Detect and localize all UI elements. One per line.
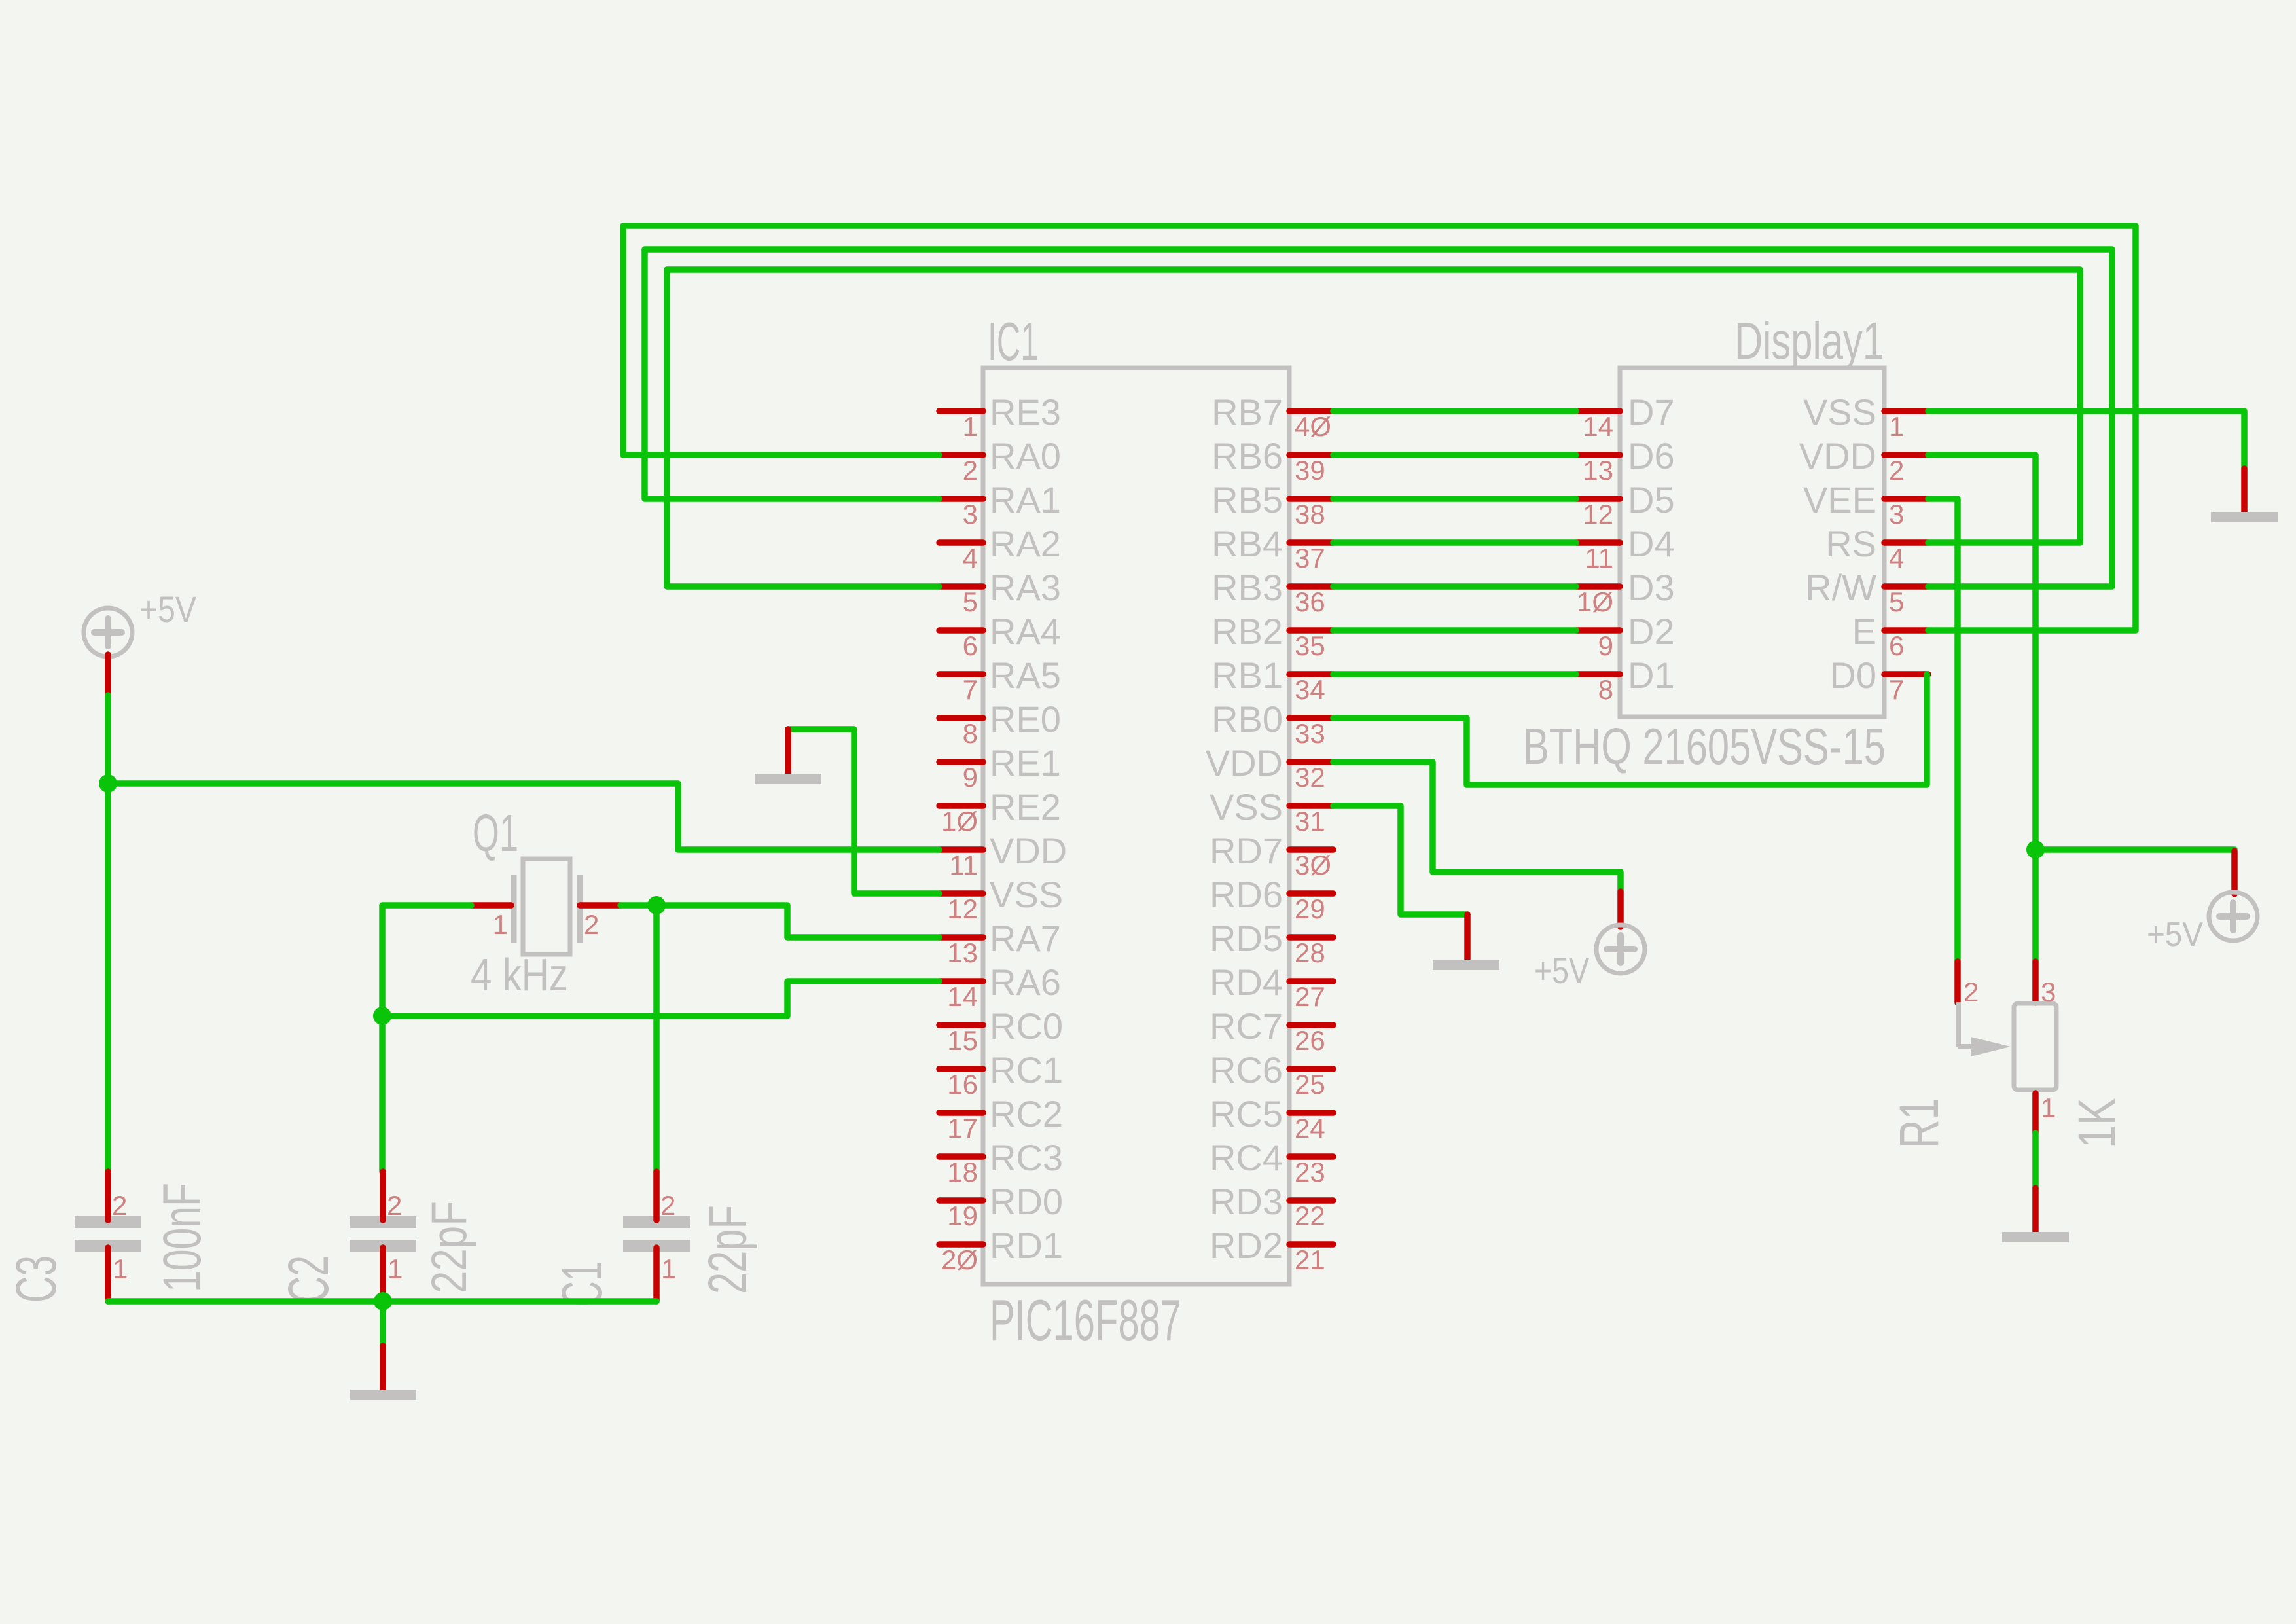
svg-text:D0: D0 (1829, 655, 1876, 696)
IC1 pin 11 VDD stub (939, 846, 983, 853)
svg-text:RC7: RC7 (1210, 1005, 1283, 1047)
svg-text:D7: D7 (1628, 391, 1675, 433)
LCD module Display1 body (1620, 368, 1884, 717)
wire Display VSS to ground (1928, 411, 2244, 469)
svg-text:RC4: RC4 (1210, 1137, 1283, 1178)
svg-text:15: 15 (947, 1025, 978, 1056)
svg-text:RD1: RD1 (990, 1225, 1063, 1266)
svg-text:34: 34 (1295, 674, 1325, 705)
svg-text:+5V: +5V (139, 588, 197, 630)
svg-text:1: 1 (661, 1254, 676, 1284)
Display1 pin 1Ø D3 stub (1576, 583, 1620, 590)
wire Display VEE down to R1 wiper (1928, 499, 1958, 962)
svg-text:14: 14 (1583, 411, 1613, 442)
svg-text:32: 32 (1295, 762, 1325, 793)
svg-text:RB5: RB5 (1211, 479, 1283, 520)
+5V supply symbol (right) (2209, 892, 2257, 941)
wire net RA1 to R/W (top line 2) (645, 249, 2112, 586)
Display1 pin 12 D5 stub (1576, 496, 1620, 502)
svg-text:+5V: +5V (2147, 916, 2203, 954)
C1 pin 2 stub (653, 1172, 660, 1220)
svg-text:3: 3 (963, 499, 978, 530)
IC1 pin 21 RD2 stub (1289, 1241, 1333, 1248)
junction capacitor bus / ground (374, 1292, 392, 1310)
Display1 pin 9 D2 stub (1576, 627, 1620, 634)
svg-text:6: 6 (1889, 630, 1904, 661)
svg-text:RA0: RA0 (990, 435, 1061, 477)
svg-text:25: 25 (1295, 1069, 1325, 1100)
Display1 pin 5 R/W stub (1884, 583, 1928, 590)
Display1 pin 7 D0 stub (1884, 671, 1928, 677)
IC1 pin 1 RE3 stub (939, 408, 983, 414)
IC1 pin 17 RC2 stub (939, 1110, 983, 1116)
ground pin stub (R1) (2032, 1188, 2039, 1233)
IC1 pin 8 RE0 stub (939, 715, 983, 721)
svg-text:RE0: RE0 (990, 698, 1061, 740)
svg-text:RE1: RE1 (990, 742, 1061, 784)
IC1 pin 4 RA2 stub (939, 539, 983, 546)
ground pin stub (IC VSS31) (1464, 914, 1471, 961)
svg-text:IC1: IC1 (988, 311, 1039, 372)
svg-text:1K: 1K (2068, 1098, 2127, 1148)
IC1 pin 10 RE2 stub (939, 803, 983, 809)
wire junction to IC RA7 (656, 905, 939, 937)
IC1 pin 29 RD6 stub (1289, 890, 1333, 897)
Display1 pin 13 D6 stub (1576, 452, 1620, 458)
svg-text:VSS: VSS (1803, 391, 1876, 433)
IC1 pin 7 RA5 stub (939, 671, 983, 677)
Display1 pin 1 VSS stub (1884, 408, 1928, 414)
svg-text:1: 1 (493, 909, 508, 940)
svg-text:RD4: RD4 (1210, 962, 1283, 1003)
IC1 pin 9 RE1 stub (939, 759, 983, 765)
svg-text:13: 13 (1583, 455, 1613, 486)
svg-text:11: 11 (1585, 543, 1613, 573)
svg-text:2: 2 (660, 1190, 675, 1221)
svg-text:RA5: RA5 (990, 655, 1061, 696)
svg-text:C2: C2 (277, 1255, 340, 1303)
svg-text:Display1: Display1 (1734, 312, 1884, 370)
IC1 pin 15 RC0 stub (939, 1022, 983, 1028)
svg-text:3Ø: 3Ø (1295, 850, 1331, 880)
wire RB1 to D1 (1333, 671, 1576, 677)
IC1 pin 2 RA0 stub (939, 452, 983, 458)
svg-text:RD6: RD6 (1210, 874, 1283, 915)
svg-text:38: 38 (1295, 499, 1325, 530)
svg-text:RA4: RA4 (990, 611, 1061, 652)
ground symbol (IC VSS12) (755, 774, 821, 784)
svg-text:C3: C3 (5, 1255, 68, 1303)
svg-text:2: 2 (1889, 455, 1904, 486)
svg-text:RB0: RB0 (1211, 698, 1283, 740)
svg-text:5: 5 (963, 586, 978, 617)
svg-text:RB1: RB1 (1211, 655, 1283, 696)
svg-text:14: 14 (947, 981, 978, 1012)
svg-text:RA6: RA6 (990, 962, 1061, 1003)
svg-text:2Ø: 2Ø (941, 1244, 978, 1275)
junction VDD net at R1 branch (2026, 840, 2045, 859)
IC1 pin 12 VSS stub (939, 890, 983, 897)
Display1 pin 2 VDD stub (1884, 452, 1928, 458)
svg-text:4 kHz: 4 kHz (471, 949, 568, 1000)
svg-text:RC3: RC3 (990, 1137, 1063, 1178)
+5V pin stub (right) (2231, 851, 2238, 894)
IC1 pin 6 RA4 stub (939, 627, 983, 634)
svg-text:28: 28 (1295, 937, 1325, 968)
svg-text:12: 12 (1583, 499, 1613, 530)
svg-text:RB6: RB6 (1211, 435, 1283, 477)
svg-text:2: 2 (387, 1190, 402, 1221)
C1 pin 1 stub (653, 1248, 660, 1301)
svg-text:VDD: VDD (1206, 742, 1283, 784)
svg-text:37: 37 (1295, 543, 1325, 573)
R1 pin 3 stub (2032, 962, 2039, 1003)
svg-text:VDD: VDD (990, 830, 1067, 871)
svg-text:22pF: 22pF (422, 1201, 477, 1293)
svg-text:RA1: RA1 (990, 479, 1061, 520)
svg-text:RA2: RA2 (990, 523, 1061, 564)
svg-text:D2: D2 (1628, 611, 1675, 652)
svg-text:2: 2 (112, 1190, 127, 1221)
IC U1 PIC16F887 body (983, 368, 1289, 1284)
svg-text:BTHQ 21605VSS-15: BTHQ 21605VSS-15 (1523, 717, 1886, 775)
svg-text:9: 9 (1598, 630, 1613, 661)
ground symbol (C2) (350, 1390, 416, 1400)
IC1 pin 13 RA7 stub (939, 934, 983, 941)
C2 pin 1 stub (380, 1248, 386, 1301)
wire IC VDD pin32 to +5V (middle) (1333, 762, 1621, 892)
wire RB4 to D4 (1333, 539, 1576, 546)
wire RB5 to D5 (1333, 496, 1576, 502)
IC1 pin 16 RC1 stub (939, 1066, 983, 1072)
svg-text:RC0: RC0 (990, 1005, 1063, 1047)
svg-text:11: 11 (949, 850, 978, 880)
svg-text:RC6: RC6 (1210, 1049, 1283, 1091)
wire RB0 to Display D0 (1333, 674, 1927, 785)
svg-text:4Ø: 4Ø (1295, 411, 1331, 442)
wire R1 pin1 to ground (2032, 1133, 2039, 1188)
wire IC RA6 to crystal net (382, 981, 939, 1016)
svg-text:24: 24 (1295, 1113, 1325, 1144)
svg-text:19: 19 (947, 1200, 978, 1231)
wire capacitor bottom bus (108, 1298, 656, 1305)
svg-text:16: 16 (947, 1069, 978, 1100)
IC1 pin 39 RB6 stub (1289, 452, 1333, 458)
svg-text:D5: D5 (1628, 479, 1675, 520)
svg-text:RB2: RB2 (1211, 611, 1283, 652)
potentiometer R1 body (2014, 1003, 2056, 1090)
ground pin stub (IC VSS12) (785, 729, 791, 775)
wire net RA0 to E (top line 1) (623, 226, 2136, 630)
svg-text:4: 4 (1889, 543, 1904, 573)
IC1 pin 32 VDD stub (1289, 759, 1333, 765)
svg-text:3: 3 (2041, 977, 2056, 1007)
wire Q1 pin2 to junction (620, 902, 656, 909)
ground pin stub (C2) (380, 1346, 386, 1391)
IC1 pin 35 RB2 stub (1289, 627, 1333, 634)
R1 pin 2 wiper stub (1954, 962, 1961, 1003)
capacitor C3 plates (75, 1216, 141, 1228)
svg-text:26: 26 (1295, 1025, 1325, 1056)
svg-text:1: 1 (1889, 411, 1904, 442)
+5V supply symbol (middle) (1596, 925, 1645, 973)
IC1 pin 18 RC3 stub (939, 1153, 983, 1160)
svg-text:RD7: RD7 (1210, 830, 1283, 871)
IC1 pin 23 RC4 stub (1289, 1153, 1333, 1160)
svg-text:RA3: RA3 (990, 567, 1061, 608)
svg-text:RC5: RC5 (1210, 1093, 1283, 1134)
capacitor C2 plates (350, 1216, 416, 1228)
svg-text:22pF: 22pF (697, 1205, 758, 1294)
svg-text:RD2: RD2 (1210, 1225, 1283, 1266)
svg-text:RB4: RB4 (1211, 523, 1283, 564)
Display1 pin 3 VEE stub (1884, 496, 1928, 502)
IC1 pin 30 RD7 stub (1289, 846, 1333, 853)
Display1 pin 4 RS stub (1884, 539, 1928, 546)
svg-text:1Ø: 1Ø (1577, 586, 1613, 617)
svg-text:13: 13 (947, 937, 978, 968)
IC1 pin 37 RB4 stub (1289, 539, 1333, 546)
svg-text:31: 31 (1295, 806, 1325, 837)
svg-text:+5V: +5V (1534, 950, 1590, 991)
IC1 pin 3 RA1 stub (939, 496, 983, 502)
svg-text:1: 1 (963, 411, 978, 442)
svg-text:1: 1 (2041, 1092, 2056, 1123)
svg-text:7: 7 (963, 674, 978, 705)
svg-text:E: E (1852, 611, 1876, 652)
ground pin stub (display VSS) (2241, 469, 2248, 513)
wire +5V to IC VDD pin11 (108, 784, 939, 850)
svg-text:22: 22 (1295, 1200, 1325, 1231)
svg-text:2: 2 (584, 909, 599, 940)
svg-text:RS: RS (1825, 523, 1876, 564)
IC1 pin 5 RA3 stub (939, 583, 983, 590)
svg-text:D3: D3 (1628, 567, 1675, 608)
IC1 pin 40 RB7 stub (1289, 408, 1333, 414)
svg-text:1Ø: 1Ø (941, 806, 978, 837)
IC1 pin 31 VSS stub (1289, 803, 1333, 809)
IC1 pin 20 RD1 stub (939, 1241, 983, 1248)
IC1 pin 25 RC6 stub (1289, 1066, 1333, 1072)
svg-text:RC2: RC2 (990, 1093, 1063, 1134)
svg-text:9: 9 (963, 762, 978, 793)
IC1 pin 19 RD0 stub (939, 1197, 983, 1204)
svg-text:3: 3 (1889, 499, 1904, 530)
svg-text:D6: D6 (1628, 435, 1675, 477)
svg-text:8: 8 (1598, 674, 1613, 705)
+5V pin stub (middle) (1617, 892, 1624, 927)
Display1 pin 11 D4 stub (1576, 539, 1620, 546)
svg-text:R1: R1 (1888, 1098, 1950, 1148)
ground symbol (IC VSS31) (1433, 960, 1499, 970)
svg-text:12: 12 (947, 893, 978, 924)
svg-text:RB3: RB3 (1211, 567, 1283, 608)
svg-text:RE3: RE3 (990, 391, 1061, 433)
IC1 pin 14 RA6 stub (939, 978, 983, 984)
wire Display VDD down to R1 pin 3 (1928, 455, 2036, 962)
svg-text:23: 23 (1295, 1157, 1325, 1187)
wire IC VSS pin31 to ground (1333, 806, 1467, 914)
svg-text:VDD: VDD (1799, 435, 1876, 477)
svg-text:17: 17 (947, 1113, 978, 1144)
svg-text:RC1: RC1 (990, 1049, 1063, 1091)
+5V supply symbol (left) (84, 608, 132, 657)
IC1 pin 22 RD3 stub (1289, 1197, 1333, 1204)
svg-text:1: 1 (113, 1254, 128, 1284)
svg-text:RD0: RD0 (990, 1181, 1063, 1222)
svg-text:7: 7 (1889, 674, 1904, 705)
junction Q1/C1/RA7 net (647, 896, 666, 914)
svg-text:VSS: VSS (1210, 786, 1283, 827)
+5V pin stub (left) (105, 655, 111, 695)
svg-text:2: 2 (1964, 977, 1979, 1007)
junction +5V left net (99, 774, 117, 793)
wire junction to +5V (right) (2036, 846, 2234, 853)
ground symbol (R1) (2002, 1232, 2069, 1242)
wire RB7 to D7 (1333, 408, 1576, 414)
svg-text:VSS: VSS (990, 874, 1063, 915)
svg-text:21: 21 (1295, 1244, 1325, 1275)
svg-text:RA7: RA7 (990, 918, 1061, 959)
IC1 pin 27 RD4 stub (1289, 978, 1333, 984)
wire Q1 pin1 down to C2 (382, 905, 471, 1172)
svg-text:33: 33 (1295, 718, 1325, 749)
wire +5V left down to C3 (105, 695, 111, 1172)
IC1 pin 26 RC7 stub (1289, 1022, 1333, 1028)
svg-text:PIC16F887: PIC16F887 (990, 1288, 1181, 1352)
svg-text:29: 29 (1295, 893, 1325, 924)
svg-text:1: 1 (387, 1254, 403, 1284)
svg-text:D1: D1 (1628, 655, 1675, 696)
svg-text:6: 6 (963, 630, 978, 661)
Display1 pin 14 D7 stub (1576, 408, 1620, 414)
wire junction down to C1 (653, 905, 660, 1172)
wire RB2 to D2 (1333, 627, 1576, 634)
Q1 pin 1 stub (471, 902, 511, 909)
C3 pin 1 stub (105, 1248, 111, 1301)
svg-text:D4: D4 (1628, 523, 1675, 564)
svg-text:RE2: RE2 (990, 786, 1061, 827)
IC1 pin 36 RB3 stub (1289, 583, 1333, 590)
svg-text:36: 36 (1295, 586, 1325, 617)
svg-text:RB7: RB7 (1211, 391, 1283, 433)
IC1 pin 38 RB5 stub (1289, 496, 1333, 502)
svg-text:2: 2 (963, 455, 978, 486)
svg-text:RD5: RD5 (1210, 918, 1283, 959)
Display1 pin 8 D1 stub (1576, 671, 1620, 677)
wire RB6 to D6 (1333, 452, 1576, 458)
capacitor C1 plates (623, 1216, 690, 1228)
svg-text:VEE: VEE (1803, 479, 1876, 520)
R1 pin 1 stub (2032, 1093, 2039, 1133)
C3 pin 2 stub (105, 1172, 111, 1220)
svg-text:18: 18 (947, 1157, 978, 1187)
svg-text:5: 5 (1889, 586, 1904, 617)
wire net RA3 to RS (top line 3) (667, 270, 2080, 586)
svg-text:4: 4 (963, 543, 978, 573)
ground symbol (display VSS) (2211, 512, 2278, 522)
C2 pin 2 stub (380, 1172, 386, 1220)
Q1 pin 2 stub (580, 902, 620, 909)
svg-text:RD3: RD3 (1210, 1181, 1283, 1222)
Display1 pin 6 E stub (1884, 627, 1928, 634)
junction Q1/C2/RA6 net (373, 1007, 391, 1025)
IC1 pin 33 RB0 stub (1289, 715, 1333, 721)
svg-text:35: 35 (1295, 630, 1325, 661)
svg-text:8: 8 (963, 718, 978, 749)
svg-text:100nF: 100nF (152, 1183, 212, 1292)
IC1 pin 24 RC5 stub (1289, 1110, 1333, 1116)
wire junction down to ground (380, 1301, 386, 1346)
crystal Q1 body (514, 859, 580, 954)
svg-text:27: 27 (1295, 981, 1325, 1012)
wire IC VSS pin12 to ground (788, 729, 939, 893)
IC1 pin 34 RB1 stub (1289, 671, 1333, 677)
svg-text:39: 39 (1295, 455, 1325, 486)
svg-text:R/W: R/W (1805, 567, 1876, 608)
R1 wiper arrow (1958, 1002, 2011, 1056)
IC1 pin 28 RD5 stub (1289, 934, 1333, 941)
svg-text:Q1: Q1 (473, 804, 518, 862)
wire RB3 to D3 (1333, 583, 1576, 590)
